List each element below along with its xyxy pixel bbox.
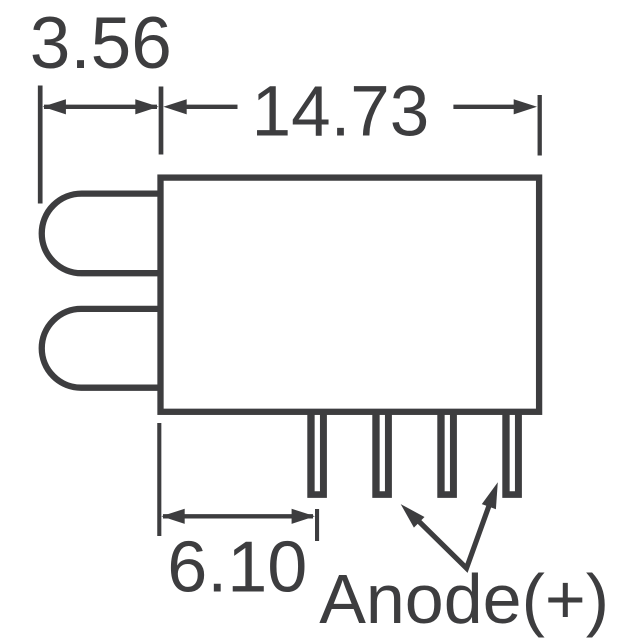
- svg-text:6.10: 6.10: [167, 528, 307, 608]
- svg-text:14.73: 14.73: [252, 73, 430, 152]
- svg-text:Anode(+): Anode(+): [319, 560, 609, 638]
- svg-text:3.56: 3.56: [30, 3, 172, 84]
